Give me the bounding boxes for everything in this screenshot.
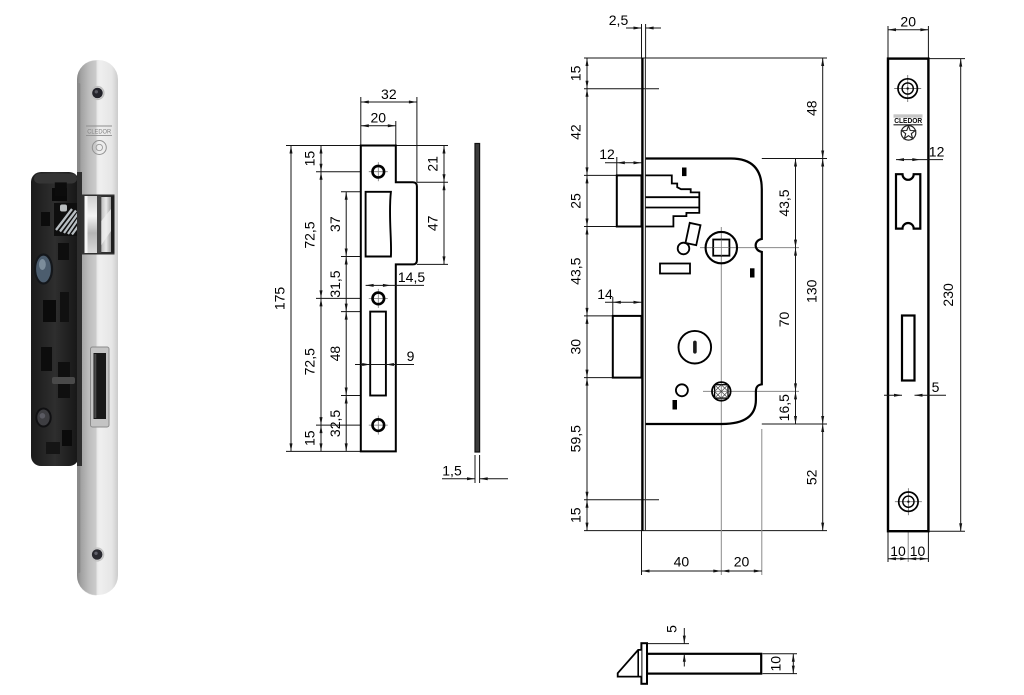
- svg-text:43,5: 43,5: [568, 257, 584, 284]
- svg-text:12: 12: [929, 143, 945, 159]
- svg-text:30: 30: [568, 339, 584, 355]
- svg-text:72,5: 72,5: [302, 221, 318, 248]
- svg-text:15: 15: [568, 65, 584, 81]
- svg-text:14: 14: [597, 286, 613, 302]
- svg-text:5: 5: [664, 625, 680, 633]
- svg-text:48: 48: [327, 346, 343, 362]
- svg-text:20: 20: [734, 554, 750, 570]
- svg-text:72,5: 72,5: [302, 348, 318, 375]
- svg-text:15: 15: [302, 151, 318, 167]
- svg-text:10: 10: [768, 656, 784, 672]
- svg-text:32: 32: [381, 86, 397, 102]
- svg-text:10: 10: [910, 543, 926, 559]
- svg-text:CLEDOR: CLEDOR: [87, 129, 112, 135]
- svg-text:230: 230: [940, 283, 956, 307]
- svg-text:25: 25: [568, 193, 584, 209]
- svg-text:32,5: 32,5: [327, 410, 343, 437]
- svg-text:48: 48: [803, 100, 819, 116]
- svg-text:9: 9: [407, 348, 415, 364]
- svg-text:15: 15: [568, 507, 584, 523]
- svg-text:70: 70: [776, 312, 792, 328]
- svg-text:5: 5: [932, 379, 940, 395]
- svg-text:130: 130: [803, 279, 819, 303]
- svg-text:10: 10: [890, 543, 906, 559]
- svg-text:15: 15: [302, 430, 318, 446]
- svg-text:1,5: 1,5: [442, 463, 462, 479]
- svg-text:47: 47: [425, 215, 441, 231]
- svg-text:175: 175: [272, 287, 288, 311]
- svg-text:59,5: 59,5: [568, 425, 584, 452]
- svg-text:40: 40: [674, 554, 690, 570]
- svg-text:37: 37: [327, 216, 343, 232]
- svg-text:42: 42: [568, 124, 584, 140]
- svg-text:52: 52: [803, 469, 819, 485]
- svg-text:14,5: 14,5: [398, 269, 425, 285]
- svg-text:31,5: 31,5: [327, 270, 343, 297]
- svg-text:2,5: 2,5: [609, 12, 629, 28]
- svg-text:21: 21: [425, 156, 441, 172]
- svg-text:43,5: 43,5: [776, 189, 792, 216]
- svg-text:CLEDOR: CLEDOR: [894, 116, 922, 125]
- svg-text:16,5: 16,5: [776, 394, 792, 421]
- svg-text:20: 20: [371, 110, 387, 126]
- svg-text:20: 20: [900, 14, 916, 30]
- svg-text:12: 12: [599, 146, 615, 162]
